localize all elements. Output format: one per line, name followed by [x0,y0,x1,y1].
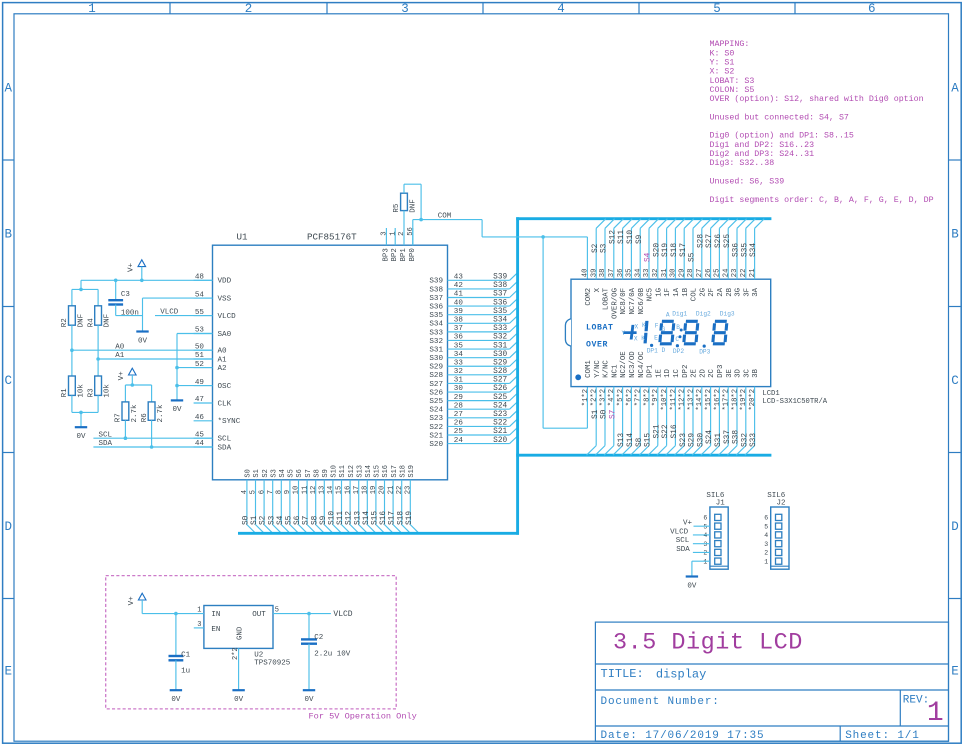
svg-text:S16: S16 [380,511,388,525]
svg-text:1: 1 [88,2,96,16]
svg-text:26: 26 [705,269,713,278]
svg-text:S6: S6 [296,469,304,477]
svg-text:3A: 3A [752,287,760,296]
svg-text:S14: S14 [365,465,373,478]
svg-text:3B: 3B [752,368,760,377]
svg-text:3: 3 [401,2,409,16]
svg-text:1E: 1E [655,368,663,377]
svg-text:S8: S8 [636,437,644,447]
svg-text:S27: S27 [429,381,443,389]
svg-text:2.7k: 2.7k [157,404,165,423]
svg-text:Unused but connected: S4, S7: Unused but connected: S4, S7 [710,112,849,122]
svg-text:3G: 3G [735,288,743,297]
svg-text:Document Number:: Document Number: [601,696,720,708]
svg-text:VSS: VSS [218,296,232,304]
svg-text:2E: 2E [691,368,699,377]
svg-text:5: 5 [250,490,258,494]
svg-text:S9: S9 [636,234,644,244]
svg-text:TITLE:: TITLE: [601,667,644,681]
svg-text:V+: V+ [118,371,126,381]
svg-text:S17: S17 [391,465,399,478]
svg-text:NC7/0A: NC7/0A [629,287,637,314]
svg-text:*12*2: *12*2 [679,389,687,411]
svg-text:15: 15 [336,486,344,495]
svg-text:*3*2: *3*2 [599,389,607,406]
svg-text:40: 40 [582,269,590,278]
svg-text:U2: U2 [254,652,263,660]
svg-text:OVER (option): S12, shared wit: OVER (option): S12, shared with Dig0 opt… [710,94,924,104]
svg-text:36: 36 [454,334,464,342]
svg-text:D: D [4,520,12,534]
svg-text:For 5V Operation Only: For 5V Operation Only [309,711,417,721]
svg-text:LOBAT: LOBAT [586,324,614,333]
svg-text:REV:: REV: [903,695,929,707]
svg-text:S11: S11 [337,511,345,525]
svg-text:SIL6: SIL6 [767,492,786,500]
svg-text:S28: S28 [429,372,443,380]
svg-text:2G: 2G [699,288,707,297]
svg-text:25: 25 [454,428,464,436]
svg-text:32: 32 [454,368,464,376]
svg-text:Dig3: S32..38: Dig3: S32..38 [710,158,775,168]
svg-text:42: 42 [454,282,464,290]
svg-text:LCD1: LCD1 [762,390,779,398]
svg-text:S3: S3 [268,515,276,525]
svg-text:EN: EN [211,626,220,634]
svg-text:VLCD: VLCD [160,308,179,316]
svg-text:S31: S31 [493,342,507,350]
svg-text:NC2/OE: NC2/OE [620,351,628,378]
svg-text:6: 6 [703,515,707,522]
svg-text:X: X [594,287,602,292]
svg-text:4: 4 [557,2,565,16]
svg-text:V+: V+ [683,520,693,528]
svg-text:NC3/OD: NC3/OD [629,351,637,378]
svg-text:A: A [951,81,959,95]
svg-text:S18: S18 [399,465,407,478]
svg-text:VLCD: VLCD [670,528,689,536]
svg-text:S18: S18 [671,243,679,257]
svg-text:3.5 Digit LCD: 3.5 Digit LCD [613,630,803,657]
svg-text:S13: S13 [618,433,626,447]
svg-text:R5: R5 [393,203,401,213]
svg-text:34: 34 [634,269,642,278]
svg-text:38: 38 [599,269,607,278]
svg-text:S26: S26 [715,234,723,248]
svg-text:8: 8 [276,490,284,494]
svg-text:23: 23 [405,486,413,495]
svg-text:S1: S1 [592,409,600,419]
svg-text:S19: S19 [406,511,414,525]
svg-text:S29: S29 [689,433,697,447]
svg-text:S35: S35 [741,243,749,257]
svg-text:S3: S3 [601,243,609,253]
svg-text:21: 21 [387,486,395,495]
svg-text:*13*2: *13*2 [687,389,695,411]
svg-text:S37: S37 [493,291,507,299]
svg-text:2: 2 [764,550,768,557]
svg-text:OSC: OSC [218,383,232,391]
svg-text:1u: 1u [181,668,190,676]
svg-text:2.2u 10V: 2.2u 10V [314,651,351,659]
svg-text:17: 17 [353,486,361,495]
svg-text:S34: S34 [493,316,507,324]
svg-text:*19*2: *19*2 [740,389,748,411]
svg-text:S2: S2 [592,243,600,253]
svg-text:1F: 1F [664,288,672,297]
svg-text:LCD-S3X1C50TR/A: LCD-S3X1C50TR/A [762,398,827,406]
svg-text:S28: S28 [697,234,705,248]
svg-text:10: 10 [293,486,301,495]
svg-text:CLK: CLK [218,400,232,408]
svg-text:*17*2: *17*2 [723,389,731,411]
svg-text:BP0: BP0 [409,248,417,261]
svg-text:3: 3 [381,231,389,235]
svg-text:B: B [951,228,959,242]
svg-text:K: K [641,335,645,342]
svg-text:SCL: SCL [676,537,690,545]
svg-text:A2: A2 [218,365,228,373]
svg-text:Dig0 (option) and DP1: S8..15: Dig0 (option) and DP1: S8..15 [710,131,854,141]
svg-text:DP1: DP1 [647,348,658,355]
svg-text:0V: 0V [171,696,181,704]
svg-text:10k: 10k [78,384,86,398]
svg-text:K: S0: K: S0 [710,49,735,58]
svg-text:C2: C2 [314,634,323,642]
svg-text:F: F [655,323,659,330]
svg-text:30: 30 [454,385,464,393]
svg-text:S19: S19 [408,465,416,478]
svg-text:6: 6 [868,2,876,16]
svg-text:*20*2: *20*2 [749,389,757,411]
svg-text:COLON: S5: COLON: S5 [710,86,755,95]
svg-text:24: 24 [722,269,730,278]
svg-text:3D: 3D [735,368,743,377]
svg-text:33: 33 [643,269,651,278]
svg-text:*18*2: *18*2 [731,389,739,411]
svg-text:23: 23 [731,269,739,278]
svg-text:Date: 17/06/2019 17:35: Date: 17/06/2019 17:35 [601,730,765,742]
svg-text:OUT: OUT [252,611,266,619]
svg-text:1: 1 [389,231,397,235]
svg-text:S37: S37 [724,430,732,444]
svg-text:C1: C1 [181,652,191,660]
svg-text:21: 21 [749,269,757,278]
svg-text:MAPPING:: MAPPING: [710,40,750,49]
svg-text:S17: S17 [389,511,397,525]
svg-text:Y: S1: Y: S1 [710,59,735,68]
svg-text:BP2: BP2 [391,248,399,261]
svg-text:DP2: DP2 [682,365,690,378]
svg-text:BP3: BP3 [382,248,390,261]
svg-text:S32: S32 [493,334,507,342]
svg-text:S37: S37 [429,295,443,303]
svg-text:A0: A0 [218,348,228,356]
svg-text:1D: 1D [664,368,672,377]
svg-text:46: 46 [195,414,205,422]
svg-text:COM2: COM2 [585,288,593,306]
svg-text:S12: S12 [609,230,617,244]
svg-text:S27: S27 [493,377,507,385]
svg-text:3F: 3F [743,288,751,297]
svg-text:S21: S21 [653,424,661,438]
svg-text:S39: S39 [429,278,443,286]
svg-text:*5*2: *5*2 [617,389,625,406]
svg-text:S34: S34 [750,243,758,257]
svg-text:S38: S38 [733,430,741,444]
svg-text:NC4/OC: NC4/OC [638,351,646,378]
svg-text:S15: S15 [645,433,653,447]
svg-text:D: D [951,520,959,534]
svg-text:S28: S28 [493,368,507,376]
svg-text:S25: S25 [724,234,732,248]
svg-text:S33: S33 [429,329,443,337]
svg-text:26: 26 [454,420,464,428]
svg-text:VLCD: VLCD [218,313,237,321]
svg-text:SA0: SA0 [218,331,232,339]
svg-text:22: 22 [740,269,748,278]
svg-text:1: 1 [703,558,707,565]
svg-text:2B: 2B [726,287,734,296]
svg-text:S39: S39 [493,274,507,282]
svg-text:S13: S13 [356,465,364,478]
svg-text:29: 29 [454,394,464,402]
svg-text:Sheet: 1/1: Sheet: 1/1 [845,730,920,742]
svg-text:S5: S5 [288,469,296,477]
svg-text:S34: S34 [429,321,443,329]
svg-text:VLCD: VLCD [333,610,352,619]
svg-text:S18: S18 [397,511,405,525]
svg-text:X: S2: X: S2 [710,68,735,77]
svg-text:S19: S19 [662,243,670,257]
svg-text:S11: S11 [618,230,626,244]
svg-text:*16*2: *16*2 [714,389,722,411]
svg-text:7: 7 [267,490,275,494]
svg-text:S23: S23 [429,415,443,423]
svg-text:5: 5 [703,523,707,530]
svg-text:S5: S5 [689,252,697,262]
svg-text:S35: S35 [493,308,507,316]
svg-text:X: X [635,323,639,330]
svg-text:1: 1 [764,558,768,565]
svg-text:S21: S21 [429,432,443,440]
svg-text:Digit segments order: C, B, A,: Digit segments order: C, B, A, F, G, E, … [710,195,934,205]
svg-text:SIL6: SIL6 [706,492,725,500]
svg-text:27: 27 [454,411,463,419]
svg-text:S6: S6 [294,515,302,525]
svg-text:*11*2: *11*2 [670,389,678,411]
svg-text:S5: S5 [286,515,294,525]
svg-text:12: 12 [310,486,318,495]
svg-text:display: display [656,668,706,682]
svg-text:20: 20 [379,486,387,495]
svg-text:28: 28 [454,402,464,410]
svg-text:NC8/0F: NC8/0F [620,288,628,315]
svg-text:SDA: SDA [676,546,690,554]
svg-text:6: 6 [258,490,266,494]
svg-text:35: 35 [626,269,634,278]
svg-text:56: 56 [407,227,415,236]
svg-text:S9: S9 [322,469,330,477]
svg-text:S7: S7 [305,469,313,477]
svg-text:S0: S0 [243,515,251,525]
svg-text:LOBAT: S3: LOBAT: S3 [710,77,755,86]
svg-text:R3: R3 [87,388,95,398]
svg-text:S1: S1 [251,515,259,525]
svg-text:A1: A1 [218,356,228,364]
svg-text:S30: S30 [429,355,443,363]
svg-text:31: 31 [454,377,464,385]
svg-text:S15: S15 [372,511,380,525]
svg-text:B: B [676,324,680,331]
svg-text:COL: COL [691,288,699,301]
svg-text:S7: S7 [609,409,617,419]
svg-text:DP3: DP3 [699,349,710,356]
svg-text:DP1: DP1 [647,364,655,378]
svg-text:S22: S22 [662,424,670,438]
svg-text:S12: S12 [346,511,354,525]
svg-text:GND: GND [237,626,245,640]
svg-text:Dig1 and DP2: S16..23: Dig1 and DP2: S16..23 [710,140,815,150]
svg-text:DNF: DNF [104,314,112,328]
svg-text:G: G [662,326,666,333]
svg-text:S20: S20 [493,437,507,445]
svg-text:2F: 2F [708,288,716,297]
svg-text:39: 39 [590,269,598,278]
svg-text:34: 34 [454,351,464,359]
svg-text:J1: J1 [716,500,726,508]
svg-text:10k: 10k [104,384,112,398]
svg-text:Dig2: Dig2 [696,311,711,318]
svg-text:36: 36 [617,269,625,278]
svg-text:E: E [4,664,12,678]
svg-text:NC5: NC5 [647,288,655,301]
svg-text:*1*2: *1*2 [582,389,590,406]
svg-text:V+: V+ [128,262,136,272]
svg-text:28: 28 [687,269,695,278]
svg-text:4: 4 [703,532,707,539]
svg-text:TPS70925: TPS70925 [254,659,291,667]
svg-text:*10*2: *10*2 [661,389,669,411]
svg-text:31: 31 [661,269,669,278]
svg-text:R2: R2 [61,318,69,327]
svg-text:S8: S8 [313,469,321,477]
svg-text:A1: A1 [115,352,125,360]
svg-text:DNF: DNF [78,314,86,328]
svg-text:S38: S38 [493,282,507,290]
svg-text:S0: S0 [245,469,253,477]
svg-text:S31: S31 [429,346,443,354]
svg-text:COM1: COM1 [585,360,593,378]
svg-text:2C: 2C [708,368,716,377]
svg-text:S22: S22 [493,420,507,428]
svg-text:A: A [4,81,12,95]
svg-text:S38: S38 [429,286,443,294]
svg-text:*SYNC: *SYNC [218,418,241,426]
svg-text:S2: S2 [260,515,268,525]
svg-text:S36: S36 [429,303,443,311]
svg-text:43: 43 [454,274,464,282]
svg-text:0V: 0V [138,337,148,345]
svg-text:S24: S24 [429,407,443,415]
svg-text:S10: S10 [627,230,635,244]
svg-text:S29: S29 [493,359,507,367]
svg-text:E: E [654,335,658,342]
svg-text:NC1: NC1 [611,364,619,378]
svg-text:C3: C3 [121,291,131,299]
svg-text:Unused: S6, S39: Unused: S6, S39 [710,176,785,186]
svg-text:1C: 1C [673,368,681,377]
svg-text:B: B [4,228,12,242]
svg-text:J2: J2 [777,500,786,508]
svg-text:39: 39 [454,308,464,316]
svg-text:2A: 2A [717,287,725,296]
svg-text:0V: 0V [304,696,314,704]
svg-text:S27: S27 [706,234,714,248]
svg-text:*14*2: *14*2 [696,389,704,411]
svg-text:41: 41 [454,291,464,299]
svg-text:S16: S16 [671,424,679,438]
svg-text:LOBAT: LOBAT [603,287,611,310]
svg-text:S24: S24 [493,402,507,410]
svg-text:30: 30 [670,269,678,278]
svg-text:DNF: DNF [410,199,418,213]
svg-text:S21: S21 [493,428,507,436]
svg-text:0V: 0V [234,696,244,704]
svg-text:*15*2: *15*2 [705,389,713,411]
svg-text:S4: S4 [645,252,653,262]
svg-text:1: 1 [927,698,944,729]
svg-text:29: 29 [678,269,686,278]
svg-text:2D: 2D [699,368,707,377]
svg-text:V+: V+ [128,596,136,606]
svg-text:S25: S25 [429,398,443,406]
svg-text:4: 4 [764,532,768,539]
svg-text:S15: S15 [374,465,382,478]
svg-text:S8: S8 [311,515,319,525]
svg-text:S10: S10 [329,511,337,525]
svg-text:0V: 0V [687,582,697,590]
svg-text:16: 16 [344,486,352,495]
svg-text:11: 11 [301,486,309,495]
svg-text:S9: S9 [320,515,328,525]
svg-text:1A: 1A [673,287,681,296]
svg-text:4: 4 [241,490,249,494]
svg-text:33: 33 [454,359,464,367]
svg-text:S12: S12 [348,465,356,478]
svg-text:25: 25 [714,269,722,278]
svg-text:37: 37 [608,269,616,278]
svg-text:3C: 3C [743,368,751,377]
svg-text:PCF85176T: PCF85176T [307,232,357,243]
svg-text:18: 18 [362,486,370,495]
svg-text:VDD: VDD [218,278,232,286]
svg-text:47: 47 [195,396,204,404]
svg-text:S23: S23 [680,433,688,447]
svg-text:S25: S25 [493,394,507,402]
svg-text:S4: S4 [277,515,285,525]
svg-text:40: 40 [454,299,464,307]
svg-text:S10: S10 [331,465,339,478]
svg-text:S14: S14 [363,511,371,525]
svg-text:SCL: SCL [99,431,113,439]
svg-text:*4*2: *4*2 [608,389,616,406]
svg-text:32: 32 [652,269,660,278]
svg-text:S26: S26 [429,389,443,397]
svg-text:0V: 0V [172,406,182,414]
svg-text:X: X [634,335,638,342]
svg-text:S16: S16 [382,465,390,478]
